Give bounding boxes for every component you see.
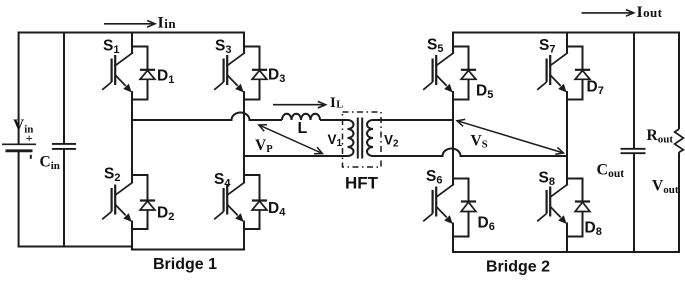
wire: transformer secondary to leg C (top) (373, 119, 453, 121)
transistor S7 (IGBT) (537, 53, 568, 92)
wire: input left vertical (upper) (18, 32, 20, 144)
svg-text:S3: S3 (215, 38, 231, 57)
transistor S1 (IGBT) (102, 53, 133, 92)
svg-text:Cout: Cout (597, 162, 625, 181)
wire: leg B upper (S3 collector) (243, 32, 245, 54)
wire: input left vertical (lower) (18, 151, 20, 247)
wire: leg A upper (S1 collector) (131, 32, 133, 54)
svg-text:S7: S7 (539, 37, 555, 56)
wire: input bottom rail (left of leg A) (18, 246, 132, 248)
wire: Cout vertical (lower) (633, 153, 635, 253)
wire: leg B middle (243, 91, 245, 183)
svg-text:Iout: Iout (637, 4, 663, 21)
diode D7 (567, 47, 590, 100)
diode D1 (132, 47, 155, 100)
svg-text:D2: D2 (157, 205, 174, 224)
svg-text:Vin: Vin (13, 117, 33, 136)
svg-text:S8: S8 (539, 170, 555, 189)
diode D6 (453, 179, 476, 237)
wire: bridge 2 bottom rail (453, 251, 680, 253)
wire: Cin vertical (lower) (63, 149, 65, 247)
wire: Rout vertical (lower) (678, 152, 680, 253)
wire: leg A lower (131, 221, 133, 251)
wire: leg A middle (131, 91, 133, 183)
wire: leg D upper (S7 collector) (566, 32, 568, 54)
svg-text:D8: D8 (585, 220, 602, 239)
svg-text:S6: S6 (426, 168, 442, 187)
diode D2 (132, 175, 155, 229)
svg-text:Bridge 1: Bridge 1 (153, 256, 217, 273)
wire: leg B lower (243, 221, 245, 251)
voltage arrow VS (457, 119, 564, 154)
wire: inductor to transformer primary (320, 119, 348, 121)
svg-text:S2: S2 (104, 166, 120, 185)
wire: bridge 1 bottom rail (131, 249, 245, 251)
transistor S6 (IGBT) (423, 184, 454, 223)
diode D3 (244, 47, 267, 100)
svg-text:D5: D5 (476, 83, 493, 102)
wire: bridge 1 top rail (18, 32, 244, 34)
diode D5 (453, 47, 476, 100)
svg-text:IL: IL (330, 95, 344, 111)
wire: Cout vertical (upper) (633, 32, 635, 149)
svg-text:Rout: Rout (647, 127, 674, 146)
inductor L (282, 114, 320, 120)
svg-text:S5: S5 (427, 37, 443, 56)
svg-text:L: L (298, 120, 308, 137)
current arrow Iout (582, 10, 634, 17)
wire: leg C upper (S5 collector) (452, 32, 454, 54)
transformer boundary box (dash-dot) (343, 112, 382, 167)
svg-text:Cin: Cin (40, 154, 60, 173)
svg-text:VS: VS (471, 133, 488, 151)
transistor S8 (IGBT) (537, 184, 568, 223)
svg-text:HFT: HFT (345, 174, 379, 193)
current arrow IL (273, 101, 326, 108)
transformer winding secondary (V2) (367, 120, 373, 156)
diode D8 (567, 179, 590, 237)
svg-text:D7: D7 (587, 79, 604, 98)
transistor S2 (IGBT) (102, 182, 133, 221)
transistor S4 (IGBT) (214, 182, 245, 221)
wire: leg B midpoint to transformer primary (bottom) (244, 155, 348, 157)
wire: leg D middle (566, 91, 568, 186)
transformer core (358, 118, 362, 159)
wire: leg D lower (566, 223, 568, 253)
svg-text:Bridge 2: Bridge 2 (486, 259, 550, 276)
resistor Rout (zigzag) (675, 129, 684, 152)
svg-text:D3: D3 (268, 67, 285, 86)
transformer winding primary (V1) (348, 120, 354, 156)
svg-text:Vout: Vout (652, 178, 679, 197)
wire: transformer secondary to leg D (bottom, hop over leg C) (373, 149, 567, 156)
svg-text:D4: D4 (268, 200, 286, 219)
svg-text:D1: D1 (157, 68, 174, 87)
transistor S5 (IGBT) (423, 53, 454, 92)
battery Vin (plates) (2, 144, 36, 151)
svg-text:D6: D6 (478, 215, 495, 234)
wire: leg C lower (452, 223, 454, 253)
svg-text:S1: S1 (103, 38, 119, 57)
capacitor Cout (plates) (621, 149, 646, 153)
svg-text:V2: V2 (384, 133, 399, 150)
svg-text:VP: VP (255, 137, 273, 155)
current arrow Iin (104, 21, 155, 28)
label - (battery negative) (30, 155, 32, 159)
svg-text:S4: S4 (214, 171, 231, 190)
transistor S3 (IGBT) (214, 53, 245, 92)
wire: leg C middle (452, 91, 454, 186)
voltage arrow VP (259, 125, 323, 154)
wire: leg A midpoint to inductor (with hop over leg B) (132, 113, 282, 121)
svg-text:Iin: Iin (158, 15, 177, 32)
wire: bridge 2 top rail (453, 32, 680, 34)
diode D4 (244, 175, 267, 229)
capacitor Cin (plates) (52, 144, 76, 149)
wire: Rout vertical (upper) (678, 32, 680, 129)
wire: Cin vertical (upper) (63, 32, 65, 144)
svg-text:V1: V1 (328, 132, 343, 149)
